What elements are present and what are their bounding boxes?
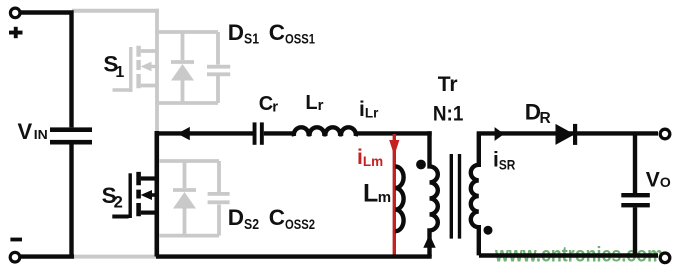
S1 body arrow <box>141 62 152 72</box>
S2 source lead <box>141 211 157 215</box>
input terminal + (top left) <box>10 8 20 18</box>
diode DS2 (grey body diode) <box>173 161 196 236</box>
wire grey bottom rail <box>73 255 159 259</box>
transformer primary winding <box>430 131 438 256</box>
transistor S2 (black) <box>112 131 158 257</box>
capacitor Vo <box>621 193 650 255</box>
wire output branch <box>633 133 637 193</box>
S1 gate stub <box>113 88 130 92</box>
S1 channel segments <box>136 46 140 89</box>
transistor S1 (greyed) <box>113 9 159 133</box>
iLm red arrowhead (pointing down) <box>389 140 399 156</box>
wire S2 top bus <box>159 159 219 163</box>
input terminal - (bottom left) <box>10 252 20 262</box>
svg-text:N:1: N:1 <box>433 102 464 126</box>
current arrow iLm (red line) <box>393 134 396 255</box>
S1 drain lead <box>141 49 157 53</box>
wire bottom left black <box>20 254 74 258</box>
wire below VIN cap <box>69 145 73 257</box>
wire grey top rail <box>72 9 159 13</box>
label - (minus) <box>10 238 22 242</box>
capacitor VIN <box>50 127 92 256</box>
capacitor Cr <box>253 122 264 144</box>
S1 source lead <box>141 84 157 88</box>
primary polarity dot <box>416 160 426 170</box>
wire secondary top rail <box>477 131 658 135</box>
wire half-bridge midpoint <box>155 131 253 135</box>
diode DR <box>556 124 578 145</box>
S2 body arrow <box>141 190 152 200</box>
S1 gate bar <box>129 47 132 92</box>
wire Lr to transformer <box>356 131 432 135</box>
wire Cr to Lr <box>264 131 295 135</box>
S2 drain-source vertical wire <box>155 131 160 257</box>
transformer core <box>451 154 459 239</box>
S1 body line <box>150 65 159 68</box>
wire S1 bottom bus <box>155 101 218 105</box>
S2 gate stub <box>112 215 128 219</box>
capacitor COSS2 (grey) <box>208 161 230 236</box>
S2 gate bar <box>128 173 131 218</box>
wire bottom rail (midpoint loop) <box>156 254 432 258</box>
transformer secondary winding <box>471 132 479 256</box>
secondary polarity dot <box>484 226 493 235</box>
output terminal bottom right <box>660 253 670 263</box>
wire S2 bottom bus <box>159 234 219 238</box>
capacitor COSS1 (grey) <box>207 32 230 103</box>
S2 channel segments <box>136 172 141 216</box>
inductor Lr <box>294 127 356 136</box>
inductor Lm (magnetizing) <box>395 166 403 231</box>
S1 drain/source vertical <box>155 9 159 133</box>
wire secondary bottom rail <box>479 253 658 257</box>
wire top left black <box>20 13 72 128</box>
label + <box>9 27 23 38</box>
svg-text:Tr: Tr <box>438 73 458 96</box>
wire S1 top bus <box>155 30 218 34</box>
S2 drain lead <box>141 176 157 180</box>
iLr arrowhead (pointing left) <box>177 127 190 140</box>
output terminal top right <box>660 129 670 139</box>
diode DS1 (grey body diode) <box>171 32 194 103</box>
iSR arrowhead (pointing right) <box>495 127 505 141</box>
primary current arrowhead (up) <box>423 234 435 248</box>
S2 body line <box>151 193 159 197</box>
